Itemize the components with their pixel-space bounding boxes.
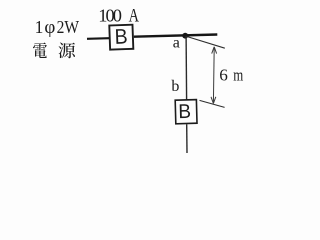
wire below breaker B2 <box>186 124 188 153</box>
svg-text:a: a <box>173 35 180 52</box>
dimension extension line top (at node a) <box>187 37 225 49</box>
dimension extension line bottom (at node b) <box>200 100 225 107</box>
junction dot node a <box>182 33 188 39</box>
wire from source to breaker B1 <box>87 37 109 40</box>
breaker B1 (100 A) <box>109 25 133 50</box>
svg-text:6: 6 <box>219 66 228 85</box>
wire node a down to breaker B2 <box>185 36 188 100</box>
svg-text:B: B <box>178 100 191 123</box>
label source kanji DEN (electric) <box>33 42 47 58</box>
dimension arrow 6 m <box>211 47 217 104</box>
breaker B2 <box>175 100 197 124</box>
svg-text:B: B <box>114 26 128 49</box>
svg-text:100: 100 <box>98 6 122 26</box>
label source kanji GEN (source) <box>59 43 75 59</box>
svg-text:A: A <box>129 7 140 27</box>
svg-text:b: b <box>171 78 179 95</box>
svg-text:m: m <box>233 66 243 85</box>
wire from B1 to node a <box>134 35 218 37</box>
svg-text:1φ2W: 1φ2W <box>35 17 80 38</box>
